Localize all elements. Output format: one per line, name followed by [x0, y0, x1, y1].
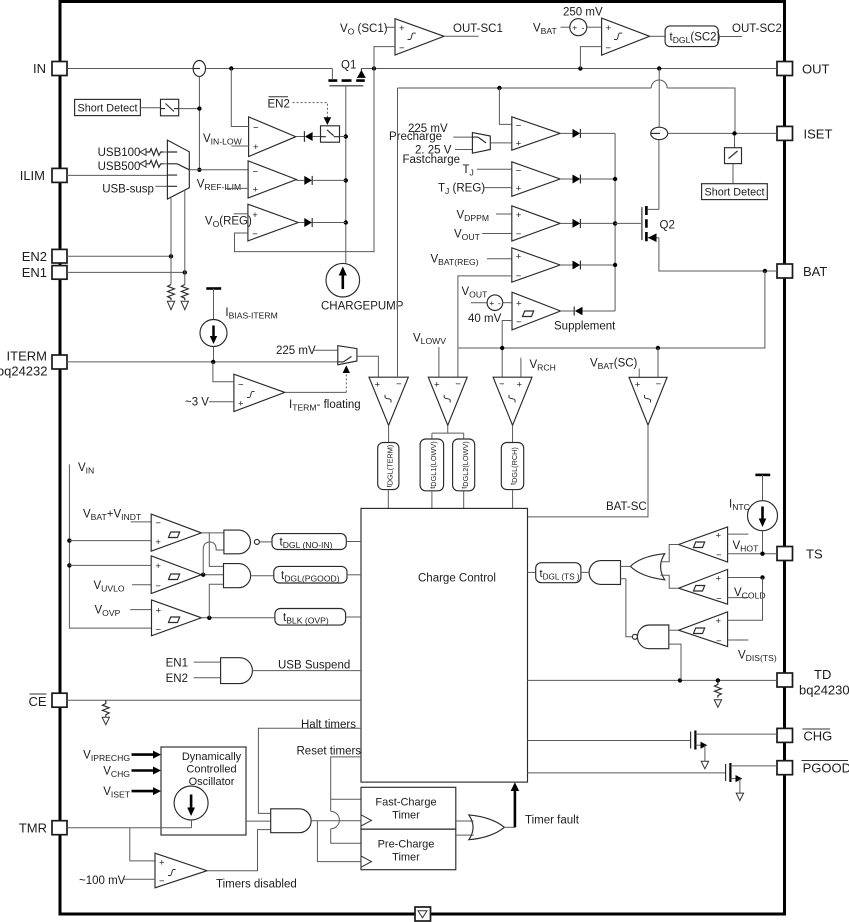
op-amp VIN-LOW comparator — [249, 117, 296, 157]
pin PGOOD (active low) — [777, 761, 793, 775]
svg-text:OUT-SC1: OUT-SC1 — [453, 23, 503, 35]
svg-text:~100 mV: ~100 mV — [79, 875, 126, 887]
wire VBAT to offset source — [561, 26, 570, 28]
wire Reset timers — [331, 757, 361, 843]
svg-text:bq24232: bq24232 — [0, 364, 48, 379]
wire source to OUT-SC2 plus — [587, 26, 602, 28]
svg-text:+: + — [489, 298, 494, 308]
deglitch box tDGL(TERM) — [378, 443, 399, 490]
op-amp VO(REG) comparator — [248, 204, 298, 241]
wire OUT rail down to ISET sense — [658, 69, 660, 128]
svg-text:−: − — [159, 876, 165, 887]
wire term mux output to TERM comparator — [357, 356, 379, 377]
current source CHARGEPUMP — [326, 263, 360, 297]
wire ILIM pin to mux — [67, 174, 167, 176]
wire EN2 dotted control to switch — [293, 103, 328, 118]
gate OR hot/cold — [631, 554, 665, 580]
pin TS — [777, 547, 793, 561]
gate AND2 (pgood) — [224, 564, 251, 588]
resistor EN1 pulldown — [181, 285, 188, 301]
wire OUT-SC2 minus to OUT rail — [580, 47, 601, 69]
svg-text:~3 V: ~3 V — [185, 397, 209, 409]
resistor TD pulldown — [715, 680, 722, 697]
current source oscillator — [174, 786, 208, 820]
wire NAND1 output — [259, 541, 272, 543]
svg-text:Controlled: Controlled — [186, 764, 236, 776]
wire BAT-SC output to charge control — [528, 425, 649, 517]
svg-text:−: − — [155, 581, 161, 592]
svg-text:-: - — [582, 23, 585, 33]
diode precharge — [560, 132, 572, 134]
svg-text:+: + — [252, 210, 258, 221]
svg-text:−: − — [516, 271, 522, 282]
arrow Timer fault to charge control — [514, 790, 517, 828]
svg-text:VO (SC1): VO (SC1) — [340, 23, 388, 37]
svg-text:−: − — [716, 594, 722, 605]
svg-text:Fastcharge: Fastcharge — [403, 154, 461, 166]
wire RCH output — [512, 425, 514, 442]
deglitch box tDGL2(LOWV) — [453, 439, 475, 491]
svg-text:250 mV: 250 mV — [563, 7, 603, 19]
diode VBAT(REG) — [560, 264, 572, 266]
power bar INTC — [755, 474, 770, 477]
wire DIS plus to TS node — [728, 578, 763, 621]
svg-text:+: + — [253, 185, 259, 196]
svg-text:CE: CE — [29, 694, 47, 709]
svg-text:−: − — [238, 380, 244, 391]
svg-text:−: − — [716, 550, 722, 561]
voltage source 250mV offset — [570, 19, 587, 36]
wire OR output — [504, 826, 515, 828]
power bar IBIAS-ITERM — [206, 287, 221, 290]
wire VIN rail to plus — [69, 540, 151, 542]
op-amp VREF-ILIM comparator — [248, 161, 296, 198]
svg-text:+: + — [606, 23, 612, 34]
op-amp OVP comparator — [152, 600, 202, 636]
wire USB-susp to mux — [155, 185, 167, 187]
wire fastcharge ref to mux — [455, 149, 472, 151]
wire switch to gate rail — [340, 136, 346, 138]
pin EN1 — [52, 266, 67, 280]
pin BAT — [777, 264, 793, 278]
svg-text:Timer: Timer — [392, 852, 420, 864]
svg-text:−: − — [516, 229, 522, 240]
svg-text:TMR: TMR — [19, 821, 47, 836]
svg-text:+: + — [635, 380, 641, 391]
svg-text:+: + — [516, 298, 522, 309]
wire source to supplement plus — [503, 302, 512, 304]
wire tDGL(SC2) output — [718, 36, 742, 38]
svg-text:VBAT(SC): VBAT(SC) — [590, 358, 638, 372]
diode VREF-ILIM — [296, 179, 304, 181]
svg-text:Fast-Charge: Fast-Charge — [375, 797, 436, 809]
current source IBIAS-ITERM — [200, 320, 227, 347]
switch EN2-controlled — [321, 126, 340, 142]
wire HOT output to OR — [660, 545, 678, 562]
svg-text:Dynamically: Dynamically — [182, 751, 242, 763]
svg-text:TD: TD — [814, 667, 831, 682]
op-amp VBAT(REG) comparator — [512, 248, 560, 282]
gate AND USB suspend — [221, 658, 253, 684]
wire ITERM pin line — [67, 361, 338, 363]
wire tap OVP to AND2 bottom input — [209, 584, 223, 618]
svg-text:−: − — [716, 636, 722, 647]
svg-text:−: − — [516, 317, 522, 328]
svg-text:CHG: CHG — [803, 729, 832, 744]
svg-text:BAT-SC: BAT-SC — [606, 501, 647, 513]
svg-text:+: + — [516, 251, 522, 262]
wire BAT sense line — [458, 271, 765, 348]
resistor USB500 — [146, 160, 164, 167]
comparator TERM (down) — [369, 377, 408, 425]
resistor USB100 — [146, 149, 164, 156]
wire ISET line to pin — [668, 132, 777, 134]
comparator RCH (down) — [493, 377, 532, 425]
wire main IN-to-OUT rail — [67, 68, 777, 70]
svg-text:Halt timers: Halt timers — [301, 719, 356, 731]
wire TMR to comparator plus — [130, 828, 155, 861]
deglitch box tDGL(SC2) — [665, 26, 718, 47]
node Q1 gate rail junctions — [344, 134, 348, 138]
voltage source 40mV — [487, 295, 503, 311]
wire OUT feedback loop (y=88) with hop over ISET sense line — [398, 80, 736, 133]
svg-text:-: - — [498, 298, 501, 308]
current sense ellipse on IN line — [193, 61, 205, 77]
svg-text:Charge Control: Charge Control — [418, 573, 496, 585]
arrow VCHG input — [132, 769, 154, 772]
svg-text:TS: TS — [806, 547, 823, 562]
svg-text:EN2: EN2 — [268, 99, 290, 111]
op-amp COLD comparator (left-facing) — [679, 569, 728, 604]
wire ITERM-floating output — [285, 391, 347, 393]
wire USB500 to mux — [164, 163, 168, 165]
svg-text:+: + — [716, 574, 722, 585]
svg-text:Reset timers: Reset timers — [297, 746, 362, 758]
wire NAND lower input from TD line — [669, 644, 681, 680]
gate NAND1 (no-input detect) — [224, 530, 251, 554]
op-amp UVLO comparator — [151, 556, 201, 594]
op-amp DPPM comparator — [512, 206, 560, 241]
wire mux to comparator plus — [490, 142, 512, 144]
wire switch to IN sense vertical — [179, 108, 200, 110]
wire comparator output to timer AND — [207, 830, 271, 871]
op-amp HOT comparator (left-facing) — [679, 527, 728, 562]
deglitch box tDGL(PGOOD) — [274, 566, 347, 583]
wire VIN rail to UVLO plus — [69, 564, 151, 566]
svg-text:+: + — [516, 139, 522, 150]
svg-text:EN2: EN2 — [22, 249, 47, 264]
svg-text:PGOOD: PGOOD — [803, 761, 849, 776]
wire USB100 to mux — [164, 151, 168, 153]
svg-text:Pre-Charge: Pre-Charge — [378, 839, 435, 851]
wire x398 rail (OUT sense) to TERM minus — [397, 88, 399, 377]
wire mux output to VREF-ILIM comparator — [189, 169, 248, 171]
wire OUT-SC2 output to deglitch — [650, 35, 666, 37]
pin EN2 — [52, 249, 67, 263]
arrow VISET input — [132, 790, 154, 793]
svg-text:Timers disabled: Timers disabled — [216, 879, 297, 891]
switch on ISET short-detect path — [734, 135, 736, 148]
svg-text:EN2: EN2 — [166, 673, 188, 685]
svg-text:tDGL(TERM): tDGL(TERM) — [384, 445, 394, 488]
block Fast-Charge Timer — [361, 787, 456, 829]
block Dynamically Controlled Oscillator — [161, 747, 246, 835]
svg-text:−: − — [155, 518, 161, 529]
pin CE (active low) — [52, 693, 67, 707]
svg-text:Short Detect: Short Detect — [705, 187, 765, 199]
svg-text:+: + — [516, 184, 522, 195]
svg-text:USB Suspend: USB Suspend — [278, 659, 350, 671]
wire Q2 drain to ISET sense — [658, 140, 660, 210]
node loop tap — [497, 86, 501, 90]
svg-text:+: + — [253, 142, 259, 153]
svg-text:VO(REG): VO(REG) — [205, 216, 252, 230]
wire TD line — [528, 679, 778, 681]
svg-text:Timer: Timer — [392, 810, 420, 822]
Q1 body diode — [357, 69, 366, 78]
buffer symbol USB500 — [140, 160, 146, 167]
svg-text:+: + — [716, 530, 722, 541]
wire hook UVLO to NAND1 lower input — [203, 542, 224, 575]
svg-text:OUT-SC2: OUT-SC2 — [732, 23, 782, 35]
pin CHG (active low) — [777, 728, 793, 742]
label VHOT stub — [728, 533, 749, 535]
svg-text:−: − — [455, 379, 461, 390]
diode TJ — [560, 178, 572, 180]
diode DPPM — [560, 222, 572, 224]
wire Q2 source to BAT pin — [659, 238, 777, 271]
mux precharge/fastcharge — [472, 133, 490, 154]
svg-text:BAT: BAT — [803, 264, 827, 279]
svg-text:USB-susp: USB-susp — [102, 184, 154, 196]
pin ISET — [777, 126, 793, 140]
wire precharge ref to mux — [453, 136, 472, 138]
wire OUT-SC1 output — [444, 35, 479, 37]
comparator LOWV (down) — [428, 377, 467, 425]
mux ILIM select — [167, 140, 189, 199]
wire tDGL(TS) from charge control — [528, 571, 536, 573]
svg-text:ISET: ISET — [804, 127, 833, 142]
wire AND output to tDGL(TS) box — [581, 571, 589, 573]
svg-text:IN: IN — [33, 61, 46, 76]
wire EN2 pin — [67, 255, 171, 257]
svg-text:ILIM: ILIM — [20, 168, 45, 183]
pin VSS bottom — [415, 907, 431, 921]
svg-text:CHARGEPUMP: CHARGEPUMP — [321, 300, 404, 312]
svg-text:225 mV: 225 mV — [276, 345, 316, 357]
svg-text:+: + — [516, 210, 522, 221]
wire TMR pin line — [67, 820, 192, 828]
arrow VIPRECHG input — [132, 753, 154, 756]
svg-text:+: + — [156, 606, 162, 617]
svg-text:−: − — [516, 120, 522, 131]
gate OR timer fault — [469, 815, 505, 840]
svg-text:Short Detect: Short Detect — [78, 103, 138, 115]
wire Halt timers — [258, 728, 361, 813]
label VDIS(TS) stub — [728, 639, 749, 641]
svg-text:tDGL2(LOWV): tDGL2(LOWV) — [460, 441, 470, 488]
deglitch box tDGL(TS) — [536, 563, 581, 583]
svg-text:bq24230: bq24230 — [799, 683, 849, 698]
svg-text:EN1: EN1 — [166, 657, 188, 669]
svg-text:Supplement: Supplement — [554, 321, 616, 333]
svg-text:+: + — [517, 380, 523, 391]
wire BAT sense to comparator minus — [657, 348, 659, 377]
svg-text:−: − — [253, 167, 259, 178]
wire clock to fast-charge timer — [311, 820, 361, 822]
svg-text:−: − — [516, 165, 522, 176]
wire DIS output to NAND — [669, 629, 679, 631]
node IN rail junctions — [229, 66, 233, 70]
wire rail to Q2 gate — [615, 222, 641, 224]
op-amp precharge comparator — [512, 117, 560, 150]
wire TERM output — [388, 425, 390, 442]
svg-text:+: + — [238, 399, 244, 410]
pin TD — [777, 673, 793, 687]
wire VOUT stub to source — [471, 302, 487, 304]
svg-text:−: − — [499, 379, 505, 390]
wire mux select lines down — [171, 190, 185, 284]
wire OVP output to tBLK(OVP) — [201, 617, 275, 619]
svg-text:+: + — [155, 537, 161, 548]
pin IN — [52, 62, 67, 76]
svg-text:+: + — [375, 380, 381, 391]
resistor CE pulldown — [102, 700, 109, 716]
wire VO(REG) feedback from OUT — [235, 69, 375, 252]
op-amp TMR-disable comparator — [155, 853, 207, 888]
svg-text:Precharge: Precharge — [389, 131, 442, 143]
wire comparator output to NAND1 — [201, 532, 224, 534]
wire INTC to TS node — [762, 531, 764, 554]
wire loop tap down to precharge mux comparator — [499, 88, 511, 124]
current sense ellipse ISET — [651, 127, 668, 139]
svg-text:−: − — [253, 123, 259, 134]
svg-text:Q1: Q1 — [341, 60, 356, 72]
wire EN1 pin — [67, 271, 185, 273]
svg-text:−: − — [156, 625, 162, 636]
svg-text:EN1: EN1 — [22, 265, 47, 280]
box Short Detect (IN) — [75, 99, 141, 115]
switch IN short-detect — [161, 99, 179, 116]
wire dotted select arrow to term mux — [345, 373, 347, 393]
gate NAND dis(ts) (left-facing) — [637, 625, 668, 649]
svg-text:+: + — [572, 23, 577, 33]
wire CHG from charge control — [528, 740, 691, 742]
wire UVLO output to AND2 — [201, 574, 223, 576]
current source INTC — [748, 501, 778, 531]
wire oscillator output — [246, 820, 271, 822]
svg-text:ITERM: ITERM — [7, 349, 47, 364]
wire VBAT(REG) minus to BAT sense rail — [458, 276, 512, 377]
svg-text:Q2: Q2 — [660, 220, 675, 232]
transistor CHG open-drain — [690, 732, 692, 749]
svg-text:−: − — [656, 379, 662, 390]
wire PGOOD from charge control — [528, 772, 726, 774]
wire clock branch to pre-charge timer — [317, 821, 361, 862]
wire diode-OR rail — [614, 133, 616, 311]
diode VO(REG) — [298, 222, 304, 224]
diode VIN-LOW (reversed) — [296, 136, 305, 138]
gate AND ts-fault (left-facing) — [589, 561, 620, 585]
op-amp OUT-SC1 comparator — [395, 19, 444, 55]
wire HOT minus to TS pin — [728, 553, 777, 555]
svg-text:tDGL(RCH): tDGL(RCH) — [509, 447, 519, 485]
wire switch to short detect — [732, 164, 734, 184]
op-amp Supplement comparator — [512, 292, 561, 330]
mux ITERM/225mV — [338, 346, 357, 365]
wire source to ITERM line — [213, 347, 215, 362]
op-amp ~3V comparator — [234, 374, 285, 411]
svg-text:+: + — [155, 561, 161, 572]
label VCOLD stub — [728, 597, 749, 599]
wire USB Suspend to charge control — [252, 670, 361, 672]
pin OUT — [777, 62, 793, 76]
resistor EN2 pulldown — [168, 285, 175, 301]
op-amp TJ comparator — [512, 162, 560, 197]
wire ~3V minus to ITERM line — [213, 362, 234, 382]
wire short detect to switch — [140, 107, 160, 109]
wire VO(SC1) to plus input — [385, 26, 395, 28]
deglitch box tDGL(RCH) — [501, 443, 523, 490]
block Charge Control — [361, 508, 528, 782]
deglitch box tDGL1(LOWV) — [420, 439, 444, 491]
wire CE pin to charge control — [67, 699, 361, 701]
svg-text:Timer fault: Timer fault — [525, 814, 580, 826]
buffer symbol USB100 — [140, 149, 146, 156]
svg-text:tDGL1(LOWV): tDGL1(LOWV) — [428, 441, 438, 488]
wire supplement minus to BAT sense line — [502, 321, 512, 378]
svg-text:+: + — [434, 380, 440, 391]
diode Supplement (reversed) — [561, 310, 575, 312]
wire Q1 gate rail to chargepump — [345, 86, 347, 264]
wire NAND output up to AND lower input — [621, 579, 633, 637]
wire COLD output to OR — [660, 575, 678, 588]
op-amp VIN-detect comparator — [151, 514, 201, 551]
box Short Detect (ISET) — [702, 184, 768, 200]
op-amp DIS(TS) comparator (left-facing) — [679, 612, 728, 647]
svg-text:OUT: OUT — [802, 62, 830, 77]
wire VIN rail — [69, 464, 151, 628]
pin TMR — [52, 821, 67, 835]
wire 225mV to term mux — [313, 349, 338, 351]
wire tap to AND2 top input — [209, 533, 223, 567]
svg-text:−: − — [606, 43, 612, 54]
wire VIN-LOW minus to IN rail — [231, 69, 248, 127]
svg-text:−: − — [252, 229, 258, 240]
svg-text:−: − — [399, 43, 405, 54]
wire AND2 output — [251, 575, 274, 577]
deglitch box tDGL(NO-IN) — [272, 534, 346, 550]
svg-text:+: + — [399, 23, 405, 34]
svg-text:+: + — [159, 858, 165, 869]
block Pre-Charge Timer — [361, 829, 456, 870]
gate AND timer clock — [271, 809, 311, 833]
wire OUT-SC1 minus to OUT rail — [374, 47, 395, 69]
wire OR output to AND input — [621, 565, 631, 567]
wire LOWV output split — [432, 425, 464, 439]
svg-text:+: + — [716, 616, 722, 627]
svg-text:−: − — [396, 379, 402, 390]
wire IN sense vertical (ellipse to mux output) — [198, 77, 200, 170]
wire timers to OR gate — [456, 821, 474, 835]
op-amp OUT-SC2 comparator — [602, 18, 650, 55]
svg-text:USB100: USB100 — [98, 147, 141, 159]
pin ITERM — [52, 355, 67, 369]
svg-text:USB500: USB500 — [98, 161, 141, 173]
transistor PGOOD open-drain — [725, 764, 727, 781]
comparator BAT-SC (down) — [629, 377, 667, 425]
pin ILIM — [52, 168, 67, 182]
